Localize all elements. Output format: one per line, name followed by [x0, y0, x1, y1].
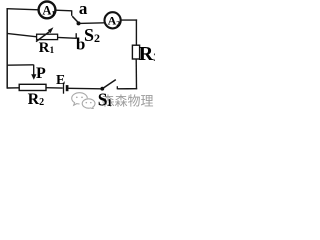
svg-text:a: a: [79, 0, 88, 18]
left wire: [6, 8, 8, 89]
wire battery to S1: [68, 87, 100, 90]
slider P arrowhead: [31, 74, 36, 80]
wire R2 to battery: [46, 87, 63, 89]
svg-text:E: E: [56, 73, 65, 88]
wire drop to contact a: [71, 10, 73, 16]
wire R1 to contact b: [58, 36, 77, 39]
battery E short plate: [66, 85, 69, 91]
contact b stub: [75, 33, 77, 38]
switch S2 blade: [72, 16, 78, 23]
svg-text:R3: R3: [139, 43, 155, 65]
switch S1 right contact: [116, 86, 118, 89]
svg-text:P: P: [36, 65, 46, 82]
switch S2 pole dot: [77, 21, 81, 25]
ammeter A2: [105, 12, 121, 28]
switch S1 blade: [103, 80, 116, 89]
wire S1 to bottom-right corner: [117, 88, 137, 90]
wire A2 to top-right corner: [121, 19, 138, 21]
rheostat R1 arrow: [36, 32, 50, 42]
wire right side upper: [135, 19, 137, 45]
rheostat R1 box: [37, 34, 58, 39]
switch S1 pivot dot: [100, 87, 104, 91]
wire right side lower: [135, 59, 137, 89]
potentiometer R2 box: [19, 84, 46, 90]
wire pole to A2: [79, 22, 104, 25]
wire branch to slider P: [7, 64, 34, 66]
battery E long plate: [63, 83, 65, 94]
slider P stem: [33, 65, 35, 76]
resistor R3: [132, 45, 139, 59]
wechat watermark logo: [72, 93, 95, 109]
wire top-right segment to switch: [56, 9, 72, 12]
wire top-left segment: [7, 9, 39, 10]
wire branch to R1: [7, 33, 37, 36]
svg-text:b: b: [76, 34, 85, 53]
ammeter A1: [39, 2, 56, 19]
wire bottom-left: [7, 87, 20, 89]
